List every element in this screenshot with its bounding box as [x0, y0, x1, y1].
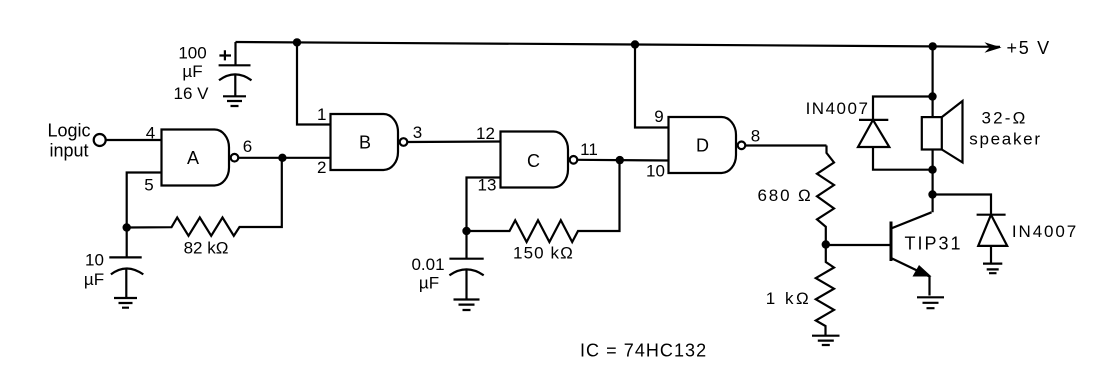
svg-text:IC = 74HC132: IC = 74HC132	[580, 341, 707, 361]
op... NAND gate U1A	[162, 130, 230, 186]
node speaker bottom	[928, 166, 936, 174]
svg-text:B: B	[359, 133, 371, 153]
wire diode D2 top	[933, 195, 992, 215]
svg-text:82 kΩ: 82 kΩ	[184, 239, 229, 258]
diode D2 IN4007 cathode bar	[977, 214, 1006, 216]
transistor Q1 emitter arrow	[913, 265, 932, 277]
svg-text:10: 10	[85, 251, 104, 270]
capacitor C3 0.01uF bottom plate	[449, 269, 483, 275]
node rail to gate D pin9	[631, 40, 639, 48]
terminal logic input	[94, 134, 106, 146]
svg-text:100: 100	[178, 44, 206, 63]
wire gate B output to gate C pin 12	[407, 140, 500, 143]
svg-text:680 Ω: 680 Ω	[757, 186, 812, 205]
svg-text:D: D	[696, 136, 709, 156]
resistor R4 1k	[816, 245, 834, 336]
resistor R2 150k	[467, 160, 620, 242]
transistor Q1 collector	[891, 212, 932, 228]
svg-text:10: 10	[646, 162, 665, 181]
transistor Q1 emitter	[891, 258, 930, 296]
node collector / diode2 branch	[928, 190, 936, 198]
resistor R1 82k	[127, 158, 282, 236]
ground (0.01uF)	[454, 300, 480, 311]
bubble gate D	[738, 142, 746, 150]
wire cap C1 to ground	[234, 74, 236, 95]
node gate C output	[616, 156, 624, 164]
wire cap C3 to ground	[465, 269, 467, 299]
wire diode D1 bottom	[873, 147, 933, 170]
wire gate A output to gate B pin 2	[238, 157, 330, 159]
svg-text:16 V: 16 V	[174, 84, 210, 103]
svg-text:3: 3	[413, 123, 422, 142]
ground (diode D2)	[983, 264, 1002, 274]
svg-text:input: input	[49, 141, 88, 161]
svg-text:C: C	[527, 151, 540, 171]
svg-text:+5 V: +5 V	[1007, 38, 1051, 58]
svg-text:speaker: speaker	[969, 130, 1041, 149]
capacitor C2 10uF top plate	[109, 228, 141, 258]
NAND gate U1C	[501, 132, 569, 188]
ground (100uF)	[223, 96, 246, 106]
svg-text:Logic: Logic	[47, 121, 90, 141]
svg-text:5: 5	[144, 176, 153, 195]
ground (emitter)	[917, 297, 944, 308]
svg-text:2: 2	[317, 158, 326, 177]
diode D2 IN4007 triangle	[978, 215, 1007, 246]
wire base	[826, 244, 891, 246]
wire gate C pin 13 down	[467, 178, 501, 232]
svg-text:0.01: 0.01	[411, 255, 444, 274]
svg-text:8: 8	[751, 127, 760, 146]
node rail to gate B pin1	[293, 38, 301, 46]
speaker LS1 coil	[922, 117, 942, 149]
NAND gate U1B	[331, 114, 399, 170]
capacitor C1 100uF bottom plate	[219, 74, 252, 80]
svg-text:IN4007: IN4007	[1012, 222, 1078, 241]
svg-text:12: 12	[476, 124, 495, 143]
capacitor C2 10uF bottom plate	[111, 268, 143, 274]
node rail to speaker branch	[929, 42, 937, 50]
capacitor C3 0.01uF top plate	[449, 231, 483, 259]
ground (1k)	[812, 336, 840, 345]
bubble gate C	[570, 156, 578, 164]
bubble gate B	[400, 138, 408, 146]
svg-text:IN4007: IN4007	[806, 99, 870, 118]
diode D1 IN4007 triangle	[858, 120, 889, 147]
node speaker top	[928, 92, 936, 100]
node gate A output	[278, 154, 286, 162]
svg-text:32-Ω: 32-Ω	[981, 109, 1027, 128]
wire input to gate A pin 4	[106, 139, 162, 141]
wire diode D2 to ground	[990, 246, 992, 263]
capacitor C1 100uF top plate	[219, 64, 251, 66]
svg-text:A: A	[187, 148, 199, 168]
svg-text:1: 1	[317, 105, 326, 124]
wire main vertical rail to collector	[931, 46, 933, 212]
svg-text:11: 11	[580, 140, 598, 159]
speaker LS1 horn	[942, 101, 963, 162]
transistor Q1 TIP31 base bar	[890, 222, 893, 262]
wire rail to gate B pin 1	[297, 42, 331, 124]
node 82k left	[123, 223, 131, 231]
node base divider	[822, 240, 830, 248]
arrow +5V	[985, 42, 1002, 53]
wire gate A pin 5 down	[127, 173, 162, 228]
svg-text:µF: µF	[182, 62, 202, 81]
wire rail to gate D pin 9	[635, 45, 669, 128]
svg-text:µF: µF	[419, 274, 439, 293]
svg-text:µF: µF	[84, 270, 104, 289]
resistor R3 680 ohm	[817, 146, 834, 245]
bubble gate A	[231, 154, 239, 162]
capacitor C1 plus sign	[219, 50, 231, 60]
ground (10uF)	[114, 298, 137, 308]
svg-text:6: 6	[243, 137, 252, 156]
wire gate D output	[745, 144, 826, 146]
node 150k left	[462, 227, 470, 235]
svg-text:9: 9	[654, 107, 663, 126]
diode D1 IN4007 cathode bar	[859, 119, 888, 121]
NAND gate U1D	[669, 117, 737, 173]
svg-text:TIP31: TIP31	[904, 234, 962, 254]
svg-text:1 kΩ: 1 kΩ	[766, 289, 811, 308]
svg-text:150 kΩ: 150 kΩ	[513, 244, 574, 263]
wire +5V rail	[236, 42, 1001, 47]
wire gate C output to gate D pin 10	[577, 159, 668, 162]
wire cap C2 to ground	[125, 268, 127, 297]
wire diode D1 top	[873, 97, 933, 120]
svg-text:4: 4	[146, 124, 155, 143]
capacitor C1 100uF wire to rail	[234, 42, 236, 65]
